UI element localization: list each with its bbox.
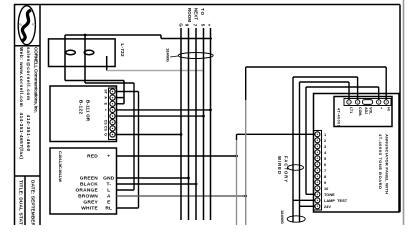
svg-text:5: 5 [324,156,327,161]
svg-text:+: + [379,107,383,109]
svg-text:3: 3 [324,144,327,149]
svg-text:10: 10 [324,186,328,191]
svg-text:COM-: COM- [358,107,362,117]
svg-text:7: 7 [324,168,326,173]
svg-text:BLACK: BLACK [80,182,98,188]
svg-text:Web: www.cornell.com 414-351: Web: www.cornell.com 414-351-4657(fax) [19,47,24,159]
svg-text:NEXT: NEXT [194,8,199,20]
svg-text:RED: RED [87,154,98,160]
svg-text:CORNELL Communications, Inc.: CORNELL Communications, Inc. [33,47,39,113]
svg-text:B-122: B-122 [79,100,84,114]
svg-text:B-111 OR: B-111 OR [86,100,91,122]
svg-text:TITLE: DUAL STATIO: TITLE: DUAL STATIO [18,180,24,225]
svg-text:BROWN: BROWN [78,194,98,200]
svg-text:sales@cornell.com 414-35: sales@cornell.com 414-351-4660 [26,47,31,151]
svg-text:DATE: SEPTEMBER: DATE: SEPTEMBER [30,180,36,225]
svg-text:TONE: TONE [324,192,335,197]
svg-text:+: + [104,109,108,111]
svg-text:C-104-1-3/C-104-1-W: C-104-1-3/C-104-1-W [58,151,63,182]
svg-text:ORANGE: ORANGE [75,188,98,194]
svg-text:T-: T- [106,182,111,188]
svg-text:9: 9 [185,24,190,27]
svg-text:ADJ: ADJ [364,107,368,114]
svg-text:5: 5 [201,24,206,27]
svg-text:4: 4 [324,150,327,155]
svg-text:CS: CS [104,120,108,126]
svg-text:GND: GND [103,176,115,182]
svg-text:4T-4000S: 4T-4000S [337,108,341,128]
svg-text:18AWG: 18AWG [280,210,285,224]
svg-text:L-722: L-722 [120,44,125,57]
svg-text:WHITE: WHITE [81,206,98,212]
svg-text:A: A [104,96,108,99]
svg-text:18AWG: 18AWG [166,48,171,62]
svg-text:TO: TO [200,8,205,16]
svg-text:LAMP TEST: LAMP TEST [324,198,348,203]
svg-text:VOL: VOL [369,107,373,115]
svg-text:ROOM: ROOM [187,8,192,22]
svg-text:ST: ST [104,89,108,94]
svg-text:8: 8 [324,174,327,179]
svg-text:E: E [104,103,108,106]
svg-text:WIRED: WIRED [277,156,282,174]
svg-text:A: A [107,194,111,200]
svg-text:9: 9 [324,180,327,185]
svg-text:7: 7 [193,24,198,27]
svg-text:E: E [107,200,111,206]
svg-text:GREEN: GREEN [80,176,99,182]
svg-text:G: G [104,133,108,136]
svg-text:+: + [107,155,110,160]
svg-text:-: - [104,115,108,117]
svg-text:GREY: GREY [83,200,98,206]
svg-text:+: + [207,24,212,27]
svg-text:FACTORY: FACTORY [284,156,289,182]
svg-text:1: 1 [324,132,327,137]
svg-text:G: G [179,23,184,27]
svg-text:ANNUNCIATOR PANEL WITH: ANNUNCIATOR PANEL WITH [385,134,390,194]
svg-text:CS: CS [104,126,108,132]
svg-text:4T-4000S TONE BOARD: 4T-4000S TONE BOARD [378,134,383,189]
svg-text:6: 6 [324,162,327,167]
svg-text:HI: HI [386,107,390,111]
svg-text:L: L [107,188,110,194]
svg-text:RL: RL [105,206,112,212]
svg-text:2: 2 [324,138,327,143]
svg-text:24V: 24V [324,204,331,209]
svg-text:LT1: LT1 [349,107,353,113]
